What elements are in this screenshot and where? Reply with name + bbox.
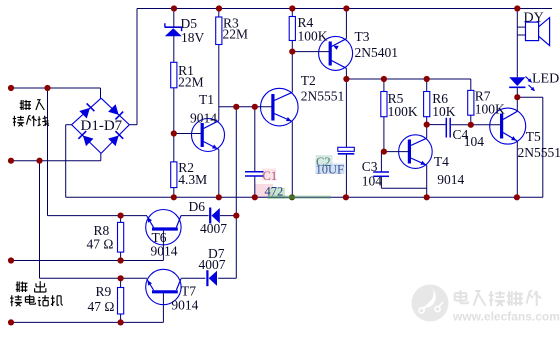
svg-text:9014: 9014: [437, 172, 464, 187]
svg-text:R9: R9: [96, 284, 112, 299]
svg-text:9014: 9014: [171, 298, 198, 313]
svg-text:T2: T2: [301, 73, 316, 88]
svg-text:18V: 18V: [181, 30, 205, 45]
svg-text:2N5551: 2N5551: [518, 145, 560, 160]
svg-text:100K: 100K: [388, 104, 418, 119]
svg-text:C1: C1: [263, 169, 278, 183]
svg-text:100K: 100K: [475, 102, 505, 117]
svg-text:4007: 4007: [200, 221, 227, 236]
svg-text:T5: T5: [526, 129, 541, 144]
svg-text:DY: DY: [524, 11, 544, 26]
svg-text:D6: D6: [189, 199, 206, 214]
svg-text:10K: 10K: [432, 104, 456, 119]
svg-text:D1-D7: D1-D7: [81, 118, 123, 134]
svg-text:100K: 100K: [298, 29, 328, 44]
svg-text:C3: C3: [362, 159, 378, 174]
svg-text:T3: T3: [355, 29, 370, 44]
svg-text:104: 104: [464, 134, 485, 149]
svg-text:4.3M: 4.3M: [178, 172, 207, 187]
svg-text:4007: 4007: [199, 257, 226, 272]
svg-text:T1: T1: [199, 92, 214, 107]
svg-text:LED: LED: [532, 72, 559, 87]
svg-text:T4: T4: [434, 154, 449, 169]
svg-text:T7: T7: [181, 284, 196, 299]
svg-text:10UF: 10UF: [316, 163, 345, 177]
svg-text:472: 472: [265, 185, 284, 199]
svg-text:2N5551: 2N5551: [301, 89, 345, 104]
svg-text:104: 104: [362, 174, 383, 189]
svg-text:47 Ω: 47 Ω: [87, 237, 114, 252]
svg-text:D5: D5: [181, 16, 198, 31]
svg-text:9014: 9014: [190, 111, 217, 126]
svg-text:www.elecfans.com: www.elecfans.com: [452, 310, 560, 324]
svg-text:22M: 22M: [178, 75, 204, 90]
svg-text:9014: 9014: [151, 244, 178, 259]
svg-text:22M: 22M: [223, 27, 249, 42]
svg-text:2N5401: 2N5401: [355, 45, 399, 60]
svg-text:47 Ω: 47 Ω: [88, 299, 115, 314]
